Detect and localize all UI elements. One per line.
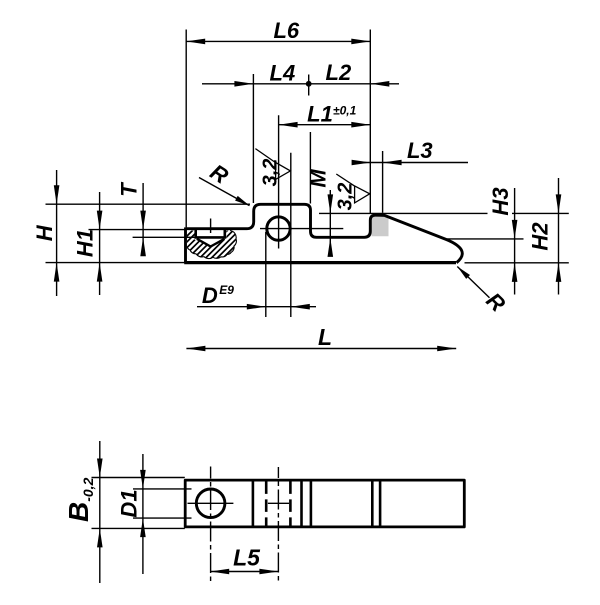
svg-text:L3: L3 — [407, 138, 433, 163]
svg-text:3,2: 3,2 — [335, 183, 357, 211]
svg-text:M: M — [306, 169, 331, 188]
svg-text:H2: H2 — [528, 222, 553, 251]
svg-text:E9: E9 — [219, 283, 234, 297]
svg-text:L5: L5 — [233, 545, 261, 571]
svg-text:H: H — [32, 224, 57, 241]
svg-text:H1: H1 — [73, 229, 98, 257]
svg-text:D: D — [202, 283, 218, 308]
svg-text:L2: L2 — [326, 60, 352, 85]
svg-text:T: T — [117, 182, 142, 197]
svg-text:L4: L4 — [270, 61, 296, 86]
svg-text:L1: L1 — [307, 102, 333, 127]
svg-text:L: L — [318, 324, 332, 350]
svg-text:D1: D1 — [117, 489, 142, 517]
svg-text:±0,1: ±0,1 — [333, 104, 357, 118]
svg-text:3,2: 3,2 — [260, 159, 282, 187]
svg-text:L6: L6 — [273, 18, 299, 43]
svg-text:H3: H3 — [488, 187, 513, 215]
